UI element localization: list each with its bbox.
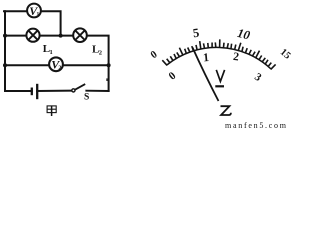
scale tick marks (162, 39, 275, 69)
node: junction dot left rail / lamp row (3, 34, 7, 38)
node: junction dot left rail / V2 row (3, 63, 7, 67)
wire: V2 row right segment (63, 64, 109, 66)
svg-text:1: 1 (202, 50, 209, 64)
wire: lamp row, L2 to right corner and right rail down (87, 36, 109, 91)
scan artifact nub on right rail (106, 78, 108, 81)
wire: lamp row, left rail to L1 (5, 35, 27, 37)
label jia (Chinese char) (47, 106, 56, 116)
voltmeter V2 (49, 57, 63, 71)
wire: left vertical rail (4, 11, 6, 91)
wire: V1 right lead to corner, down to lamp-row junction (41, 11, 61, 35)
switch S: blade (75, 84, 85, 90)
node: junction dot right rail / V2 row (107, 63, 111, 67)
lamp L2 (73, 28, 87, 42)
DC underline below V (215, 85, 224, 87)
meter needle (193, 48, 219, 102)
label yi (Chinese char, Z-like) (221, 106, 231, 115)
wire: battery to switch pivot (37, 90, 72, 92)
wire: switch to bottom-right corner (86, 90, 108, 92)
node: junction dot V1 branch / lamp row (59, 34, 63, 38)
battery cell: short plate (31, 88, 33, 96)
lamp L1 (26, 29, 39, 42)
svg-text:2: 2 (58, 66, 61, 72)
wire: V2 row left segment (5, 64, 49, 66)
switch S: pivot circle (72, 89, 75, 92)
svg-text:1: 1 (36, 12, 39, 18)
svg-text:S: S (84, 92, 89, 102)
voltmeter V1 (27, 4, 41, 18)
battery cell: long plate (36, 84, 38, 99)
wire: lamp row, L1 to L2 through junction (39, 35, 73, 37)
svg-text:2: 2 (99, 49, 102, 56)
scale arc baseline (167, 47, 271, 69)
wire: bottom row, left rail to battery (5, 90, 32, 92)
svg-text:manfen5.com: manfen5.com (225, 121, 287, 129)
unit label V (drawn) (216, 70, 224, 82)
wire: top row left segment to voltmeter V1 (4, 10, 27, 12)
svg-text:1: 1 (50, 49, 53, 56)
